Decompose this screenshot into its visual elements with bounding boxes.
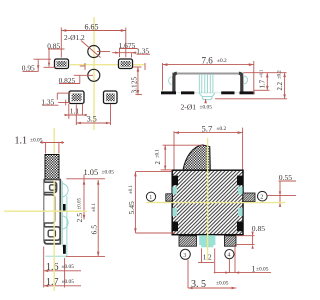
leader 2-o1 arrow bbox=[205, 99, 207, 102]
svg-text:0.825: 0.825 bbox=[59, 76, 76, 85]
centerline side view vertical upper (under button) bbox=[53, 128, 55, 180]
centerline land pattern horizontal bbox=[70, 64, 118, 66]
pad P4 bottom-right bbox=[104, 91, 118, 104]
dim 1.2 lines bbox=[201, 248, 203, 263]
svg-text:3.5: 3.5 bbox=[87, 115, 97, 124]
pad P1 top-left bbox=[55, 59, 69, 69]
switch body front bbox=[173, 73, 244, 92]
hidden line peg side bbox=[61, 181, 63, 247]
dim 2.5 line bbox=[83, 175, 85, 220]
svg-text:6.65: 6.65 bbox=[85, 23, 99, 32]
right leg dimple bbox=[244, 76, 248, 84]
dim 0.85 lines bbox=[252, 232, 254, 245]
svg-text:±0.05: ±0.05 bbox=[62, 264, 75, 270]
dim 1.7 lines bbox=[44, 285, 81, 287]
svg-text:2: 2 bbox=[155, 161, 162, 165]
svg-text:±0.05: ±0.05 bbox=[62, 279, 75, 285]
pin circle 3 bbox=[180, 249, 190, 259]
dim 0.95 lines bbox=[34, 58, 52, 60]
peg tip bbox=[199, 93, 215, 99]
foot left outer bbox=[161, 91, 176, 94]
svg-text:5.45: 5.45 bbox=[127, 201, 136, 214]
dim 2 lines bbox=[164, 145, 166, 170]
svg-text:±0.2: ±0.2 bbox=[217, 126, 227, 132]
hole H1 bbox=[88, 46, 100, 58]
notch 1 inner bbox=[50, 185, 56, 190]
switch body top view bbox=[172, 170, 243, 235]
dim 1 lines bbox=[234, 245, 236, 273]
peg bottom ext line bbox=[66, 255, 105, 257]
tick right of centerline bbox=[144, 63, 146, 70]
terminal stub right bbox=[243, 193, 255, 202]
svg-text:2.5: 2.5 bbox=[75, 213, 84, 223]
peg block bottom bbox=[199, 235, 215, 247]
svg-text:1.7: 1.7 bbox=[260, 79, 267, 88]
stem dome top view bbox=[183, 145, 210, 170]
pin circle 2 bbox=[258, 191, 268, 201]
svg-text:3. 5: 3. 5 bbox=[191, 279, 206, 290]
centerline top view vertical bbox=[207, 138, 209, 261]
side notch R2 bbox=[238, 208, 243, 216]
corner tab BR bbox=[237, 222, 243, 232]
svg-text:±0.1: ±0.1 bbox=[92, 203, 97, 212]
svg-text:1.35: 1.35 bbox=[136, 47, 149, 56]
svg-text:3: 3 bbox=[183, 253, 186, 259]
corner tab TR bbox=[237, 176, 243, 186]
stem button side bbox=[45, 155, 59, 180]
centerline land pattern vertical bbox=[93, 17, 95, 130]
svg-text:2.2: 2.2 bbox=[277, 81, 284, 90]
terminal stub bottom-left bbox=[179, 236, 197, 246]
hole H2 bbox=[88, 69, 100, 81]
foot right outer bbox=[240, 91, 255, 94]
svg-text:±0.1: ±0.1 bbox=[155, 149, 160, 158]
pin circle 1 bbox=[146, 192, 155, 201]
peg block centerline green bbox=[207, 235, 209, 247]
svg-text:±0.05: ±0.05 bbox=[256, 267, 269, 273]
corner tab BL bbox=[172, 222, 178, 232]
svg-text:5.7: 5.7 bbox=[202, 124, 213, 134]
side notch L2 bbox=[172, 208, 177, 216]
foot right inner bbox=[221, 91, 234, 94]
svg-text:±0.05: ±0.05 bbox=[216, 281, 229, 287]
pad P2 top-right bbox=[119, 59, 133, 69]
body side outline bbox=[44, 180, 60, 244]
dim 1.35 right lines bbox=[137, 53, 151, 55]
side bump 2 bbox=[63, 216, 69, 229]
svg-text:0.85: 0.85 bbox=[47, 41, 60, 50]
corner tab TL bbox=[172, 176, 178, 186]
dim 3.125 lines bbox=[137, 67, 139, 95]
centerline top view horizontal bbox=[146, 202, 286, 204]
dim 3.5 lines bbox=[75, 105, 77, 126]
terminal notch 3 bbox=[44, 227, 60, 240]
side notch R1 bbox=[238, 187, 243, 195]
foot left inner bbox=[181, 91, 194, 94]
dim 0.55 lines bbox=[279, 180, 297, 182]
svg-text:+0.1: +0.1 bbox=[259, 69, 264, 78]
dim 1.6 lines bbox=[43, 247, 45, 288]
terminal notch 2 bbox=[44, 195, 54, 223]
dim 1.1 lines bbox=[68, 104, 70, 119]
dim 5.7 lines bbox=[174, 132, 243, 134]
svg-text:±0.05: ±0.05 bbox=[77, 198, 82, 210]
peg lines cyan bbox=[199, 74, 215, 100]
side notch L1 bbox=[172, 187, 177, 195]
right leg bbox=[239, 73, 242, 91]
svg-text:0.95: 0.95 bbox=[22, 64, 35, 73]
dim 0.85 lines bbox=[48, 48, 65, 50]
terminal stub bottom-right bbox=[224, 236, 236, 246]
left leg bbox=[174, 73, 177, 91]
svg-text:7.6: 7.6 bbox=[202, 56, 214, 66]
svg-text:2-Ø1: 2-Ø1 bbox=[181, 102, 197, 111]
svg-text:6.5: 6.5 bbox=[89, 225, 98, 235]
body bottom edge thin bbox=[176, 92, 240, 94]
body top edge bbox=[172, 73, 244, 75]
pin circle 4 bbox=[225, 250, 234, 259]
dim 2.2 line bbox=[284, 73, 286, 99]
svg-text:±0.05: ±0.05 bbox=[200, 105, 213, 111]
notch 3 inner bbox=[48, 230, 55, 237]
tick left of centerline bbox=[84, 63, 86, 70]
centerline side view vertical lower bbox=[53, 180, 55, 291]
svg-text:3.125: 3.125 bbox=[129, 77, 138, 94]
centerline side view horizontal bbox=[4, 210, 87, 212]
svg-text:2-Ø1.2: 2-Ø1.2 bbox=[64, 33, 85, 42]
svg-text:1.1: 1.1 bbox=[15, 135, 28, 146]
terminal notch 1 bbox=[44, 182, 56, 192]
dim 1.1 lines bbox=[40, 142, 64, 144]
svg-text:1: 1 bbox=[149, 195, 152, 201]
svg-text:1.1: 1.1 bbox=[70, 106, 80, 115]
dim 7.6 line bbox=[163, 64, 254, 66]
svg-text:±0.1: ±0.1 bbox=[129, 185, 134, 194]
svg-text:2: 2 bbox=[260, 195, 263, 201]
dim 1.7 line bbox=[266, 73, 268, 90]
dim 6.5 line bbox=[97, 180, 99, 256]
dim 1.05 ext line bbox=[66, 178, 105, 180]
left leg dimple bbox=[169, 77, 172, 85]
svg-text:1.7: 1.7 bbox=[46, 277, 59, 288]
svg-text:±0.2: ±0.2 bbox=[277, 70, 282, 79]
svg-text:4: 4 bbox=[228, 253, 231, 259]
svg-text:±0.05: ±0.05 bbox=[30, 138, 43, 144]
side bump 1 bbox=[63, 184, 69, 197]
svg-text:1.6: 1.6 bbox=[46, 262, 59, 273]
dim 1.35 left lines bbox=[42, 104, 59, 106]
svg-text:0.85: 0.85 bbox=[252, 224, 265, 233]
svg-text:±0.05: ±0.05 bbox=[102, 170, 115, 176]
leader 2-o1.2 bbox=[81, 41, 101, 58]
svg-text:1.35: 1.35 bbox=[41, 98, 54, 107]
terminal stub left bbox=[166, 194, 172, 201]
section mark 1 bbox=[63, 204, 66, 212]
dim 0.825 lines bbox=[59, 83, 80, 85]
svg-text:1.675: 1.675 bbox=[119, 41, 136, 50]
dim 6.65 line bbox=[61, 30, 126, 32]
dim 3.5 lines bbox=[187, 260, 189, 288]
dim 1.675 underline bbox=[119, 48, 138, 50]
pad P3 bottom-left bbox=[69, 91, 84, 104]
svg-text:0.55: 0.55 bbox=[279, 173, 292, 182]
svg-text:1.05: 1.05 bbox=[84, 168, 99, 177]
svg-text:1: 1 bbox=[252, 265, 256, 274]
dim 5.45 lines bbox=[134, 172, 136, 233]
svg-text:±0.2: ±0.2 bbox=[217, 58, 227, 64]
section mark 2 bbox=[63, 245, 66, 254]
